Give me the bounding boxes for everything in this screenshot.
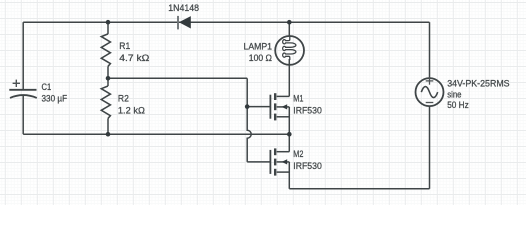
resistor R2 — [101, 86, 110, 118]
diode D1 1N4148 — [178, 16, 191, 30]
svg-text:M1: M1 — [293, 94, 303, 105]
wire mid rail from R1-R2 node to gate column — [108, 77, 247, 79]
wire bottom rail — [289, 188, 429, 190]
svg-text:330 µF: 330 µF — [42, 94, 68, 105]
wire gate column upper — [246, 78, 248, 106]
M2 arrow — [282, 159, 288, 164]
wire bottom-left rail — [23, 133, 289, 135]
wire M1 source to mid node — [288, 107, 290, 134]
wire left rail upper (to C1 top plate) — [22, 22, 24, 89]
svg-text:C1: C1 — [42, 82, 52, 93]
node R2 bottom — [106, 132, 111, 137]
svg-text:R1: R1 — [119, 41, 130, 52]
transistor M2 (NMOS) — [270, 148, 289, 175]
wire right rail lower — [429, 106, 431, 189]
svg-text:IRF530: IRF530 — [293, 161, 322, 172]
V1 plus sign — [426, 77, 434, 85]
svg-text:M2: M2 — [293, 149, 303, 160]
svg-text:1.2 kΩ: 1.2 kΩ — [118, 106, 145, 117]
wire gate column lower with hop over bottom-left rail — [247, 107, 251, 162]
wire M1 gate lead — [247, 106, 270, 108]
node gate column junction — [245, 104, 250, 109]
svg-text:50 Hz: 50 Hz — [447, 100, 469, 111]
svg-text:4.7 kΩ: 4.7 kΩ — [119, 53, 149, 64]
node top of R1 — [106, 20, 111, 25]
wire M2 gate lead — [247, 161, 270, 163]
node R1-R2 junction — [106, 76, 111, 81]
svg-text:34V-PK-25RMS: 34V-PK-25RMS — [447, 79, 509, 90]
M1 arrow — [282, 104, 288, 109]
source V1 (AC) — [416, 78, 444, 106]
wire top rail — [23, 21, 429, 23]
node M1 source / M2 drain — [287, 132, 292, 137]
svg-text:100 Ω: 100 Ω — [249, 53, 272, 64]
node top of lamp — [287, 20, 292, 25]
wire right rail upper — [429, 22, 431, 78]
wire R1 bottom lead / R2 top lead — [107, 66, 109, 86]
svg-text:R2: R2 — [118, 94, 129, 105]
wire lamp bottom to M1 drain — [288, 59, 290, 96]
svg-text:sine: sine — [447, 89, 461, 100]
svg-text:1N4148: 1N4148 — [168, 3, 199, 14]
wire lamp top lead — [288, 22, 290, 36]
wire R1 top lead — [107, 22, 109, 34]
wire mid node to M2 drain — [288, 134, 290, 152]
transistor M1 (NMOS) — [270, 93, 289, 120]
wire R2 bottom lead — [107, 118, 109, 134]
wire M2 source down to bottom rail — [288, 162, 290, 189]
C1 plus sign — [13, 80, 20, 87]
lamp LAMP1 — [275, 36, 304, 65]
svg-text:LAMP1: LAMP1 — [244, 41, 273, 52]
capacitor C1 (polarized) — [9, 90, 37, 98]
resistor R1 — [101, 34, 110, 66]
wire left rail lower (C1 bottom to bottom-left rail) — [22, 95, 24, 134]
svg-text:IRF530: IRF530 — [293, 106, 322, 117]
V1 minus sign — [426, 102, 434, 104]
